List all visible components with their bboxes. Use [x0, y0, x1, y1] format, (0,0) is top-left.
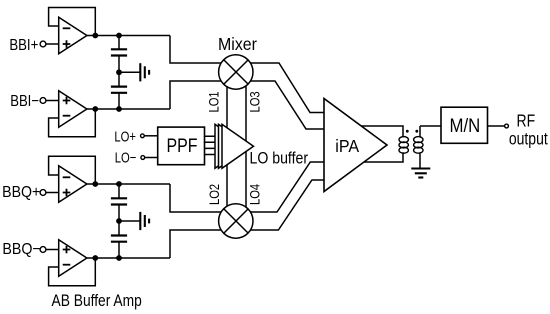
- svg-text:LO+: LO+: [114, 128, 136, 145]
- svg-text:iPA: iPA: [335, 136, 360, 156]
- svg-text:LO4: LO4: [247, 184, 262, 205]
- svg-text:BBI+: BBI+: [9, 37, 38, 54]
- svg-text:BBQ+: BBQ+: [2, 183, 40, 201]
- svg-text:LO−: LO−: [115, 149, 137, 166]
- svg-text:LO1: LO1: [206, 91, 221, 112]
- svg-text:Mixer: Mixer: [218, 34, 257, 54]
- svg-text:BBQ−: BBQ−: [2, 240, 40, 258]
- svg-text:LO2: LO2: [207, 184, 222, 205]
- svg-text:LO buffer: LO buffer: [250, 149, 309, 167]
- svg-text:LO3: LO3: [247, 91, 262, 112]
- svg-text:M/N: M/N: [450, 115, 481, 136]
- svg-text:RF: RF: [516, 112, 535, 131]
- svg-text:AB Buffer Amp: AB Buffer Amp: [52, 292, 142, 310]
- svg-text:PPF: PPF: [166, 135, 197, 157]
- svg-text:output: output: [509, 130, 548, 149]
- svg-text:BBI−: BBI−: [10, 93, 39, 110]
